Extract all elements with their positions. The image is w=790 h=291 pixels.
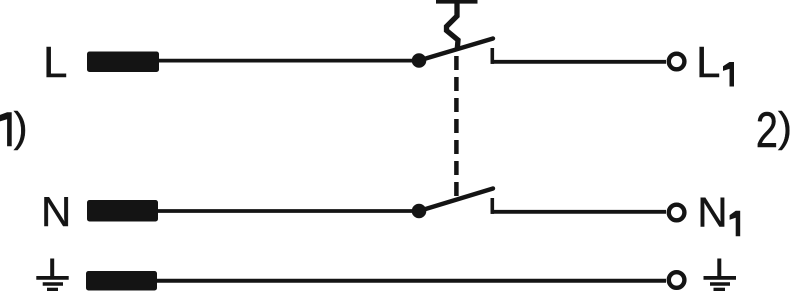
terminal label N1 <box>697 188 740 236</box>
switch contact S1a lever (L pole) <box>419 39 493 61</box>
switch contact S1a fixed contact <box>490 48 494 64</box>
wire L1: contact to terminal <box>491 60 666 64</box>
wire N1: contact to terminal <box>491 210 666 214</box>
wire PE <box>156 279 666 283</box>
svg-text:L: L <box>43 38 67 87</box>
ground symbol (left) <box>36 259 68 290</box>
svg-text:): ) <box>778 104 790 151</box>
terminal PE (open circle) <box>669 272 685 288</box>
wire L: block to junction <box>157 59 419 63</box>
terminal N1 (open circle) <box>669 205 685 221</box>
push-button actuator (T-bar with spring link) <box>436 0 478 50</box>
svg-text:L: L <box>696 38 720 87</box>
terminal label L1 <box>696 38 734 87</box>
terminal L1 (open circle) <box>669 54 685 70</box>
svg-text:N: N <box>41 188 71 235</box>
ground symbol (right) <box>704 259 737 290</box>
terminal block (cable) row PE <box>86 271 157 291</box>
switch contact S1b fixed contact <box>490 198 494 214</box>
svg-text:2: 2 <box>756 102 778 158</box>
svg-text:N: N <box>697 188 727 235</box>
junction node on N <box>412 204 427 219</box>
terminal block (cable) row L <box>87 52 159 73</box>
svg-text:): ) <box>14 103 28 150</box>
switch contact S1b lever (N pole) <box>419 189 493 212</box>
terminal block (cable) row N <box>87 200 158 222</box>
label 1) left note <box>0 103 28 150</box>
junction node on L <box>412 53 427 68</box>
wire N: block to junction <box>157 209 419 213</box>
mechanical link (dashed) <box>454 56 459 197</box>
label 2) right note <box>756 102 790 158</box>
